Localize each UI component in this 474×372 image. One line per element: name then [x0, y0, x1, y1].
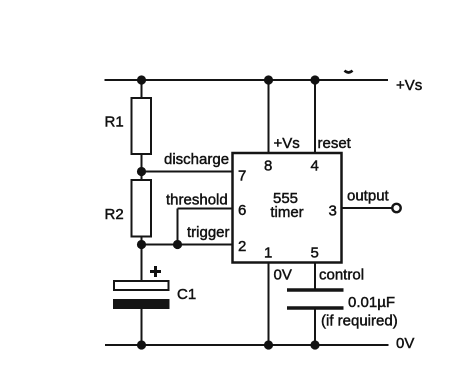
wire C1 bottom lead: [141, 308, 143, 345]
svg-text:discharge: discharge: [164, 151, 229, 168]
svg-text:6: 6: [238, 202, 246, 219]
node junction threshold trigger: [173, 240, 182, 249]
wire bottom 0V rail: [105, 344, 389, 346]
svg-text:timer: timer: [270, 204, 303, 221]
wire discharge: [142, 171, 234, 173]
svg-text:8: 8: [264, 158, 272, 175]
wire pin4 reset: [314, 80, 316, 158]
node junction top rail reset: [310, 75, 319, 84]
svg-text:threshold: threshold: [166, 192, 228, 209]
svg-text:1: 1: [264, 245, 272, 262]
svg-text:reset: reset: [318, 135, 352, 152]
svg-text:0V: 0V: [274, 267, 292, 284]
wire R1 bottom to R2 top: [141, 154, 143, 180]
svg-text:5: 5: [311, 245, 319, 262]
wire threshold to trigger vertical: [177, 209, 179, 245]
wire top +Vs rail: [105, 79, 389, 81]
svg-text:3: 3: [329, 203, 337, 220]
svg-text:R2: R2: [105, 206, 124, 223]
capacitor C2 control top plate: [287, 288, 344, 292]
C1 polarity plus sign: [150, 266, 161, 277]
wire R2 bottom lead: [141, 237, 143, 245]
capacitor C1 negative plate: [113, 299, 170, 309]
resistor R2: [132, 180, 152, 237]
svg-text:control: control: [319, 267, 364, 284]
output terminal circle: [392, 204, 400, 212]
node junction discharge: [137, 167, 146, 176]
svg-text:+Vs: +Vs: [274, 135, 300, 152]
wire trigger: [142, 244, 234, 246]
svg-text:0V: 0V: [396, 335, 414, 352]
svg-text:(if required): (if required): [321, 313, 398, 330]
svg-text:2: 2: [238, 238, 246, 255]
wire C1 top lead: [141, 245, 143, 282]
svg-text:4: 4: [311, 158, 319, 175]
wire control capacitor bottom lead: [314, 308, 316, 345]
node junction top rail pin8: [264, 75, 273, 84]
node junction bottom rail C1: [137, 340, 146, 349]
svg-text:+Vs: +Vs: [396, 77, 422, 94]
stray glyph artifact above rail: [345, 71, 353, 73]
capacitor C2 control bottom plate: [287, 306, 344, 310]
wire R1 top lead: [141, 80, 143, 98]
wire pin1 0V: [268, 258, 270, 345]
IC U1 555 timer body: [233, 153, 342, 263]
wire output: [342, 207, 392, 209]
node junction bottom rail pin1: [264, 340, 273, 349]
svg-text:trigger: trigger: [187, 224, 230, 241]
wire threshold horizontal: [178, 208, 234, 210]
wire pin5 control: [314, 258, 316, 290]
node junction bottom rail control: [310, 340, 319, 349]
svg-text:R1: R1: [105, 114, 124, 131]
svg-text:output: output: [347, 188, 390, 205]
svg-text:C1: C1: [177, 286, 196, 303]
svg-text:0.01µF: 0.01µF: [348, 294, 395, 311]
capacitor C1 positive plate: [114, 281, 169, 290]
svg-text:7: 7: [238, 168, 246, 185]
node junction R2 bottom trigger: [137, 240, 146, 249]
resistor R1: [132, 98, 152, 154]
node junction top rail R1: [137, 75, 146, 84]
wire pin8 +Vs: [268, 80, 270, 158]
